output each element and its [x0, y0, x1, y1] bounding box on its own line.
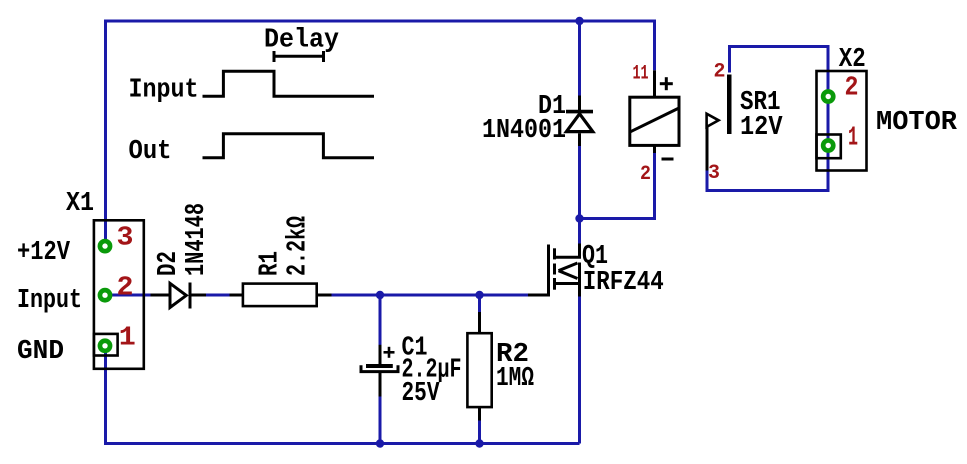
svg-text:2.2kΩ: 2.2kΩ [284, 216, 314, 276]
svg-text:Input: Input [17, 286, 82, 316]
svg-text:2: 2 [117, 274, 134, 304]
svg-text:3: 3 [117, 223, 134, 253]
svg-text:X1: X1 [66, 189, 94, 219]
svg-text:25V: 25V [402, 379, 441, 409]
svg-text:2: 2 [640, 163, 651, 186]
svg-text:+12V: +12V [17, 238, 71, 268]
svg-text:12V: 12V [740, 113, 783, 143]
svg-text:1N4148: 1N4148 [182, 203, 212, 276]
svg-text:IRFZ44: IRFZ44 [583, 268, 664, 298]
svg-text:Delay: Delay [264, 26, 339, 56]
svg-text:MOTOR: MOTOR [876, 108, 958, 138]
svg-text:2: 2 [714, 61, 726, 84]
svg-text:1: 1 [119, 324, 136, 354]
svg-text:R1: R1 [256, 251, 286, 276]
svg-text:Out: Out [129, 137, 172, 167]
svg-text:11: 11 [633, 62, 649, 85]
svg-text:X2: X2 [839, 45, 866, 75]
svg-text:3: 3 [708, 162, 720, 185]
svg-text:1MΩ: 1MΩ [496, 364, 534, 394]
svg-text:1N4001: 1N4001 [482, 116, 566, 146]
svg-text:Input: Input [129, 76, 199, 106]
svg-text:GND: GND [17, 337, 64, 367]
svg-text:1: 1 [848, 124, 858, 154]
svg-text:D2: D2 [154, 251, 184, 276]
svg-text:2: 2 [845, 74, 859, 104]
